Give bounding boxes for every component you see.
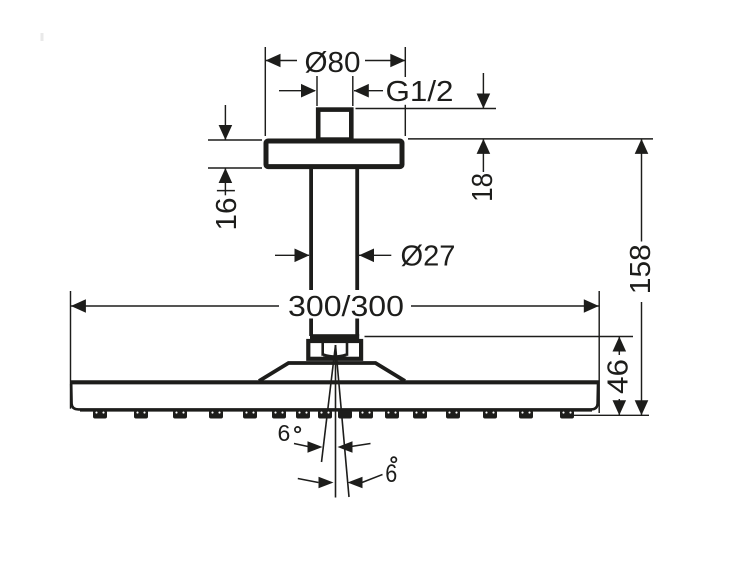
svg-text:46: 46	[603, 359, 635, 394]
angle dim upper right leader	[351, 444, 371, 447]
extension line flange-top left	[208, 139, 262, 141]
arrow Ø80 right	[390, 54, 405, 68]
connection nut	[308, 341, 361, 359]
dimension 16 tick	[217, 190, 235, 192]
nut inner right line	[346, 341, 349, 356]
extension line G1/2 stub right	[352, 76, 354, 106]
arrow 16 top	[219, 125, 233, 140]
angle dim upper left leader	[294, 444, 308, 447]
dimension leader G1/2 left	[279, 90, 315, 92]
nut inner left line	[321, 341, 324, 356]
extension line 300 right	[598, 291, 600, 413]
nozzle feet row	[93, 410, 574, 418]
arrow G1/2 right	[354, 84, 369, 98]
dimension line 16 lower stem	[224, 168, 226, 195]
arrow 158 top	[635, 139, 649, 154]
arrow 300 right	[584, 299, 599, 313]
shower component drawing	[70, 110, 599, 410]
extension line flange-top plane right	[408, 138, 653, 140]
mount trapezoid	[259, 363, 405, 381]
dimension line 300/300	[71, 305, 599, 307]
svg-text:300/300: 300/300	[288, 291, 404, 323]
arrow 158 bottom	[635, 400, 649, 415]
extension line stub-top plane right	[356, 108, 497, 110]
arrow Ø80 left	[266, 54, 281, 68]
spray angle line right	[336, 345, 350, 497]
svg-text:16: 16	[211, 198, 243, 231]
extension line nut-top plane right	[365, 336, 634, 338]
nozzle dots	[95, 412, 571, 414]
dimension leader G1/2 right	[354, 90, 384, 92]
dimension line Ø80	[266, 60, 406, 62]
extension line 300 left	[70, 291, 72, 409]
dimension line 46	[618, 337, 620, 416]
arrow angle upper right	[338, 441, 353, 453]
head body outline	[71, 384, 598, 409]
dimension line 16 upper stem	[224, 105, 226, 140]
svg-text:Ø80: Ø80	[305, 47, 361, 79]
ceiling flange plate	[266, 141, 402, 167]
svg-text:18: 18	[467, 173, 499, 202]
degree ring lower	[391, 457, 396, 462]
extension line flange-bottom left	[208, 167, 262, 169]
arrow 46 bottom	[613, 400, 627, 415]
dimension leader Ø27 left	[275, 254, 309, 256]
pipe end collar (solid)	[310, 334, 359, 340]
spray angle line left	[322, 345, 336, 462]
supply pipe left wall	[309, 166, 313, 336]
arrow angle lower left	[319, 477, 334, 489]
dimension line 18 lower stem	[482, 139, 484, 172]
text background masks	[279, 46, 653, 399]
arrow 46 top	[613, 337, 627, 352]
arrow angle lower right	[348, 477, 363, 489]
dimension line 18 upper stem	[482, 73, 484, 109]
nut inner bottom arc	[324, 355, 347, 357]
extension line Ø80 right	[404, 47, 406, 136]
arrow 18 bottom	[477, 139, 491, 154]
supply pipe right wall	[355, 166, 359, 336]
spray centre line	[335, 345, 337, 498]
faint artifact mark top-left	[41, 33, 44, 41]
arrow Ø27 left	[295, 249, 310, 263]
svg-text:6: 6	[278, 420, 291, 446]
head top plate line	[70, 380, 599, 384]
svg-text:158: 158	[625, 244, 657, 294]
arrow G1/2 left	[301, 84, 316, 98]
dimension leader Ø27 right	[359, 254, 391, 256]
angle dim lower right leader	[362, 475, 383, 483]
arrow 16 bottom	[219, 168, 233, 183]
G1/2 connector stub	[318, 110, 351, 140]
svg-text:6: 6	[385, 460, 397, 488]
extension line G1/2 stub left	[316, 76, 318, 106]
nozzle connector line	[80, 410, 592, 412]
arrowheads	[71, 54, 648, 489]
svg-text:Ø27: Ø27	[401, 241, 456, 273]
arrow Ø27 right	[359, 249, 374, 263]
arrow 300 left	[71, 299, 86, 313]
extension line Ø80 left	[264, 47, 266, 136]
angle dim lower left leader	[298, 479, 319, 483]
degree ring upper	[295, 427, 300, 432]
extension line bottom plane right	[563, 414, 649, 416]
svg-text:G1/2: G1/2	[386, 76, 454, 108]
arrow 18 top	[477, 94, 491, 109]
arrow angle upper left	[308, 441, 323, 453]
dimension line 158	[641, 139, 643, 415]
